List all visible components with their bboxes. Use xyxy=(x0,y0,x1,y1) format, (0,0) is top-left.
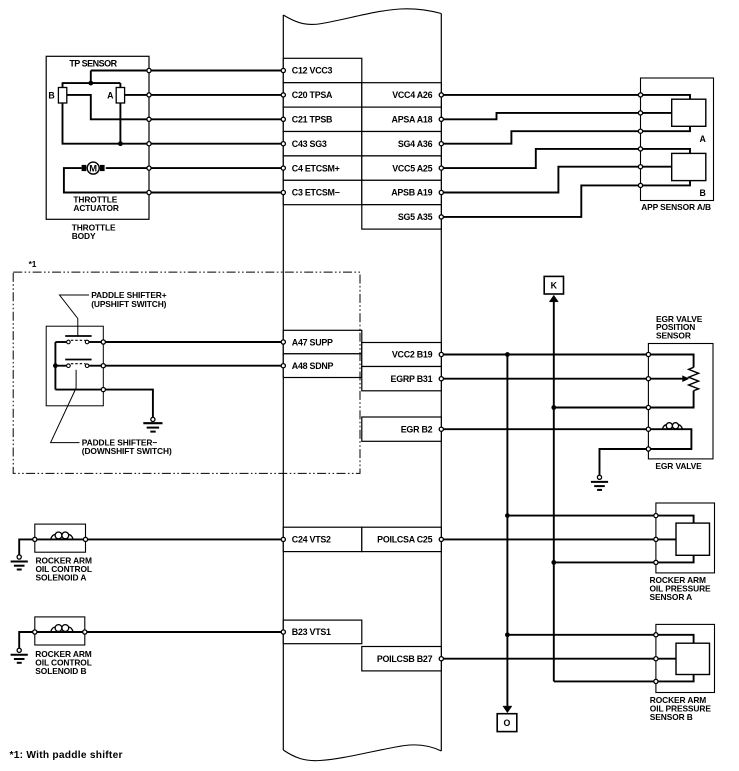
resistor A element xyxy=(116,88,124,104)
svg-text:A48 SDNP: A48 SDNP xyxy=(292,361,334,371)
wire EGR pin1 to resistor top xyxy=(648,355,693,368)
wire EGR pin5 to ground xyxy=(600,449,649,475)
node SG3 junction xyxy=(118,141,123,146)
wire APP pin4 to square B top xyxy=(641,149,691,154)
pin circle ECM C24 xyxy=(281,537,285,541)
svg-text:*1: *1 xyxy=(29,259,37,269)
svg-text:C20 TPSA: C20 TPSA xyxy=(292,90,333,100)
pin circle ECM A47 xyxy=(281,340,285,344)
coil solenoid B xyxy=(51,627,56,632)
node O line junction B xyxy=(505,632,510,637)
pin circle TP box ETCSM+ xyxy=(147,166,151,170)
wire APP pin3 to square A bottom xyxy=(641,126,691,131)
pin circle EGR 2 xyxy=(646,377,650,381)
pin circle TP box SG3 xyxy=(147,142,151,146)
pin circle APP 6 xyxy=(638,183,642,187)
pin circle TP box C12 xyxy=(147,68,151,72)
pin circle EGR 5 xyxy=(646,447,650,451)
ECM/PCM connector torn top edge xyxy=(283,9,441,25)
pin circle ECM C21 xyxy=(281,117,285,121)
wire TPSA from resistor A xyxy=(125,94,284,96)
pin circle ECM APSB xyxy=(439,190,443,194)
pin box C4 ETCSM+ xyxy=(283,156,362,180)
pin circle EGR 3 xyxy=(646,405,650,409)
pin circle ECM B23 xyxy=(281,630,285,634)
svg-text:SOLENOID A: SOLENOID A xyxy=(36,573,87,583)
node VCC2 junction xyxy=(505,352,510,357)
wire sensor A pin1 to square top xyxy=(656,516,694,524)
wire into resistor B top xyxy=(62,83,64,87)
svg-text:SENSOR B: SENSOR B xyxy=(650,712,693,722)
svg-text:A47 SUPP: A47 SUPP xyxy=(292,337,333,347)
rocker arm oil pressure sensor B box xyxy=(656,624,715,692)
wire APP pin5 to square B left xyxy=(641,166,672,168)
svg-text:K: K xyxy=(551,281,558,291)
pin circle ECM C20 xyxy=(281,93,285,97)
wire sensor A pin3 to square bottom xyxy=(656,555,694,562)
pin circle switch A47 xyxy=(101,340,105,344)
pin box C12 VCC3 xyxy=(283,58,362,82)
rocker arm oil control solenoid A box xyxy=(35,524,86,552)
svg-text:A: A xyxy=(700,134,707,144)
motor M terminal blocks xyxy=(82,165,87,171)
rocker arm oil pressure sensor A box xyxy=(656,503,715,573)
upshift contact circle left xyxy=(67,340,71,344)
svg-text:A: A xyxy=(107,90,114,100)
throttle body box xyxy=(46,56,149,219)
pressure sensor element square A xyxy=(676,523,710,555)
paddle shifter option dashed box xyxy=(13,272,360,473)
pin circle ECM VCC4 xyxy=(439,93,443,97)
pin circle APP 4 xyxy=(638,147,642,151)
pin circle sensor B 3 xyxy=(654,679,658,683)
pin circle ECM SG5 xyxy=(439,215,443,219)
pin box SG4 A36 xyxy=(362,132,442,156)
wiper arrow EGRP xyxy=(648,378,684,380)
pin circle sensor A 3 xyxy=(654,560,658,564)
paddle shifter switch unit box xyxy=(46,326,103,406)
wire downshift left contact to bus xyxy=(55,365,66,367)
pin circle ECM C4 xyxy=(281,166,285,170)
svg-text:B: B xyxy=(48,90,54,100)
pin box C24 VTS2 xyxy=(283,527,362,551)
pin box A47 SUPP xyxy=(283,330,362,354)
upshift switch dashed contact xyxy=(71,339,86,341)
wire O line vertical xyxy=(506,355,508,707)
wire POILCSA C25 to sensor A xyxy=(441,538,656,540)
rocker arm oil control solenoid B box xyxy=(35,617,85,645)
svg-text:APSA A18: APSA A18 xyxy=(392,115,433,125)
wire APP pin6 to square B bottom xyxy=(641,181,691,186)
pin box B23 VTS1 xyxy=(283,620,362,644)
svg-text:B: B xyxy=(700,188,706,198)
upshift switch bar xyxy=(65,335,91,337)
svg-text:SENSOR A: SENSOR A xyxy=(650,592,693,602)
wire SG4 A36 to APP sensor xyxy=(441,131,640,144)
wire EGRP B31 to EGR sensor xyxy=(441,378,648,380)
wire C12 VCC3 xyxy=(91,70,283,72)
node O line junction A xyxy=(505,513,510,518)
wire resistor A bottom to SG3 xyxy=(119,103,121,144)
pin circle switch A48 xyxy=(101,364,105,368)
svg-text:SOLENOID B: SOLENOID B xyxy=(35,666,86,676)
pin circle ECM POILCSB xyxy=(439,657,443,661)
wire VCC5 A25 to APP sensor xyxy=(441,149,640,168)
pin box C21 TPSB xyxy=(283,107,362,131)
wire EGR B2 to EGR valve xyxy=(441,428,648,430)
wire sensor top bar xyxy=(62,82,121,84)
svg-text:(UPSHIFT SWITCH): (UPSHIFT SWITCH) xyxy=(91,299,166,309)
downshift contact circle left xyxy=(67,364,71,368)
wire left bus of switches xyxy=(54,342,56,390)
pin circle APP 2 xyxy=(638,111,642,115)
pin circle solenoid B left xyxy=(33,630,37,634)
svg-text:C4 ETCSM+: C4 ETCSM+ xyxy=(292,163,340,173)
wire C24 VTS2 xyxy=(86,538,284,540)
pin circle switch ground xyxy=(101,388,105,392)
wire TPSB from resistor B xyxy=(67,95,283,119)
pressure sensor element square B xyxy=(676,643,710,674)
wire sensor B pin2 to square left xyxy=(656,658,676,660)
wire O line to sensor A pin1 xyxy=(507,515,656,517)
wire bus to ground pin xyxy=(55,389,103,391)
pin circle sensor B 1 xyxy=(654,633,658,637)
resistor EGR position sensor xyxy=(689,367,699,390)
svg-text:SENSOR: SENSOR xyxy=(656,330,691,340)
svg-text:TP SENSOR: TP SENSOR xyxy=(69,59,117,69)
pin circle ECM EGR xyxy=(439,427,443,431)
pin circle EGR 1 xyxy=(646,352,650,356)
svg-text:EGR VALVE: EGR VALVE xyxy=(655,461,702,471)
pin circle APP 1 xyxy=(638,93,642,97)
svg-text:ACTUATOR: ACTUATOR xyxy=(73,203,118,213)
pin circle sensor A 1 xyxy=(654,514,658,518)
ECM/PCM connector strip left edge xyxy=(282,15,284,750)
pin circle APP 3 xyxy=(638,129,642,133)
svg-text:C12 VCC3: C12 VCC3 xyxy=(292,66,333,76)
wire into resistor A top xyxy=(119,83,121,87)
data link connector K box xyxy=(544,276,563,294)
wire solenoid A through xyxy=(35,538,86,540)
wire APP pin1 to square A top xyxy=(641,95,691,99)
node K line junction A xyxy=(551,560,556,565)
svg-text:SG5 A35: SG5 A35 xyxy=(398,212,433,222)
svg-text:*1: With paddle shifter: *1: With paddle shifter xyxy=(10,750,123,761)
svg-text:BODY: BODY xyxy=(72,231,96,241)
wire K line vertical xyxy=(553,301,555,682)
APP sensor element square B xyxy=(672,153,706,180)
callout line downshift xyxy=(51,388,80,443)
wire solenoid B through xyxy=(35,631,85,633)
ECM/PCM connector torn bottom edge xyxy=(283,745,441,761)
svg-text:APSB A19: APSB A19 xyxy=(391,188,432,198)
wire upshift right contact to pin xyxy=(89,341,103,343)
pin box C43 SG3 xyxy=(283,132,362,156)
downshift switch dashed contact xyxy=(71,363,86,365)
svg-text:POILCSB B27: POILCSB B27 xyxy=(377,654,433,664)
APP sensor element square A xyxy=(672,99,706,126)
wire SG5 A35 to APP sensor xyxy=(441,185,640,217)
wire K line to sensor A pin3 xyxy=(554,561,656,563)
pin circle solenoid A right xyxy=(83,537,87,541)
wire VCC4 A26 to APP sensor xyxy=(441,94,640,96)
svg-text:VCC4 A26: VCC4 A26 xyxy=(392,90,432,100)
svg-text:EGRP B31: EGRP B31 xyxy=(391,374,433,384)
pin circle ECM C43 xyxy=(281,142,285,146)
wire solenoid A to ground xyxy=(19,539,35,554)
wire motor to C3 ETCSM- xyxy=(64,168,283,192)
motor M throttle actuator xyxy=(87,162,99,174)
svg-text:APP SENSOR A/B: APP SENSOR A/B xyxy=(641,202,711,212)
callout line upshift xyxy=(60,295,90,319)
arrow to O xyxy=(503,706,512,713)
wire APP pin2 to square A left xyxy=(641,112,672,114)
pin circle solenoid A left xyxy=(33,537,37,541)
ground paddle shifter xyxy=(143,417,162,431)
svg-text:(DOWNSHIFT SWITCH): (DOWNSHIFT SWITCH) xyxy=(82,446,172,456)
wire APSA A18 to APP sensor xyxy=(441,113,640,119)
APP sensor A/B box xyxy=(641,78,714,201)
svg-text:VCC2 B19: VCC2 B19 xyxy=(392,350,433,360)
ground EGR valve xyxy=(591,475,608,490)
pin circle ECM POILCSA xyxy=(439,537,443,541)
wire SG3 from resistor B bottom xyxy=(63,103,284,144)
wire K line to sensor B pin3 xyxy=(554,680,656,682)
pin box A48 SDNP xyxy=(283,354,362,378)
pin box VCC2 B19 xyxy=(362,343,442,367)
pin circle sensor B 2 xyxy=(654,657,658,661)
svg-text:C43 SG3: C43 SG3 xyxy=(292,139,327,149)
wire A48 SDNP xyxy=(103,365,283,367)
pin box APSB A19 xyxy=(362,180,442,204)
svg-text:POILCSA C25: POILCSA C25 xyxy=(377,535,432,545)
pin circle solenoid B right xyxy=(83,630,87,634)
wire sensor A pin2 to square left xyxy=(656,538,676,540)
pin circle ECM VCC5 xyxy=(439,166,443,170)
wire O line to sensor B pin1 xyxy=(507,634,656,636)
wire EGR pin4 through coil xyxy=(648,429,691,449)
pin circle ECM C12 xyxy=(281,68,285,72)
EGR valve position sensor box xyxy=(648,344,713,459)
wire APSB A19 to APP sensor xyxy=(441,167,640,193)
ground solenoid A xyxy=(11,555,28,570)
svg-text:C21 TPSB: C21 TPSB xyxy=(292,115,332,125)
pin box POILCSA C25 xyxy=(362,527,442,551)
pin circle ECM EGRP xyxy=(439,377,443,381)
svg-text:C24 VTS2: C24 VTS2 xyxy=(292,535,331,545)
wire POILCSB B27 to sensor B xyxy=(441,658,656,660)
arrow to K xyxy=(549,295,558,302)
wire VCC2 B19 to EGR sensor xyxy=(441,354,648,356)
pin circle ECM VCC2 xyxy=(439,352,443,356)
pin box APSA A18 xyxy=(362,107,442,131)
node TP sensor supply junction xyxy=(88,81,93,86)
resistor B element xyxy=(58,88,66,104)
pin circle TP box TPSA xyxy=(147,93,151,97)
data link connector O box xyxy=(497,714,517,732)
upshift switch actuator tick xyxy=(77,319,79,337)
pin circle TP box ETCSM- xyxy=(147,190,151,194)
svg-text:EGR B2: EGR B2 xyxy=(401,424,433,434)
svg-text:C3 ETCSM−: C3 ETCSM− xyxy=(292,188,340,198)
svg-text:SG4 A36: SG4 A36 xyxy=(398,139,433,149)
svg-text:M: M xyxy=(89,163,97,174)
pin circle APP 5 xyxy=(638,165,642,169)
ECM/PCM connector strip right edge xyxy=(440,14,442,752)
wire solenoid B to ground xyxy=(19,632,35,648)
pin box EGR B2 xyxy=(362,417,442,441)
wire switch ground lead xyxy=(103,390,153,417)
wire K junction to EGR sensor pin3 xyxy=(554,407,649,409)
wire C4 ETCSM+ from motor xyxy=(106,167,283,169)
pin box SG5 A35 xyxy=(362,205,442,229)
wire sensor B pin1 to square top xyxy=(656,635,694,643)
wire upshift left contact to bus xyxy=(55,341,66,343)
downshift contact circle right xyxy=(85,364,89,368)
upshift contact circle right xyxy=(85,340,89,344)
coil EGR valve solenoid xyxy=(662,425,667,429)
downshift switch bar xyxy=(65,359,91,361)
wire sensor B pin3 to square bottom xyxy=(656,675,694,682)
wire C12 drop to sensor bar xyxy=(90,71,92,84)
pin circle ECM C3 xyxy=(281,190,285,194)
pin box C20 TPSA xyxy=(283,83,362,107)
pin box C3 ETCSM- xyxy=(283,180,362,204)
pin circle ECM APSA xyxy=(439,117,443,121)
wire resistor bottom to pin3 xyxy=(648,391,693,408)
svg-text:O: O xyxy=(503,718,510,728)
node bus junction xyxy=(53,363,58,368)
wire A47 SUPP xyxy=(103,341,283,343)
wire B23 VTS1 xyxy=(85,631,283,633)
svg-text:B23 VTS1: B23 VTS1 xyxy=(292,627,331,637)
pin circle ECM SG4 xyxy=(439,142,443,146)
pin box EGRP B31 xyxy=(362,367,442,391)
pin circle ECM A48 xyxy=(281,364,285,368)
node K line junction xyxy=(551,405,556,410)
coil solenoid A xyxy=(51,535,56,540)
pin circle TP box TPSB xyxy=(147,117,151,121)
pin circle sensor A 2 xyxy=(654,537,658,541)
pin circle EGR 4 xyxy=(646,427,650,431)
downshift switch actuator tick xyxy=(75,370,77,388)
pin box VCC4 A26 xyxy=(362,83,442,107)
svg-text:VCC5 A25: VCC5 A25 xyxy=(392,163,432,173)
pin box POILCSB B27 xyxy=(362,647,442,671)
wire downshift right contact to pin xyxy=(89,365,103,367)
ground solenoid B xyxy=(11,648,28,663)
pin box VCC5 A25 xyxy=(362,156,442,180)
